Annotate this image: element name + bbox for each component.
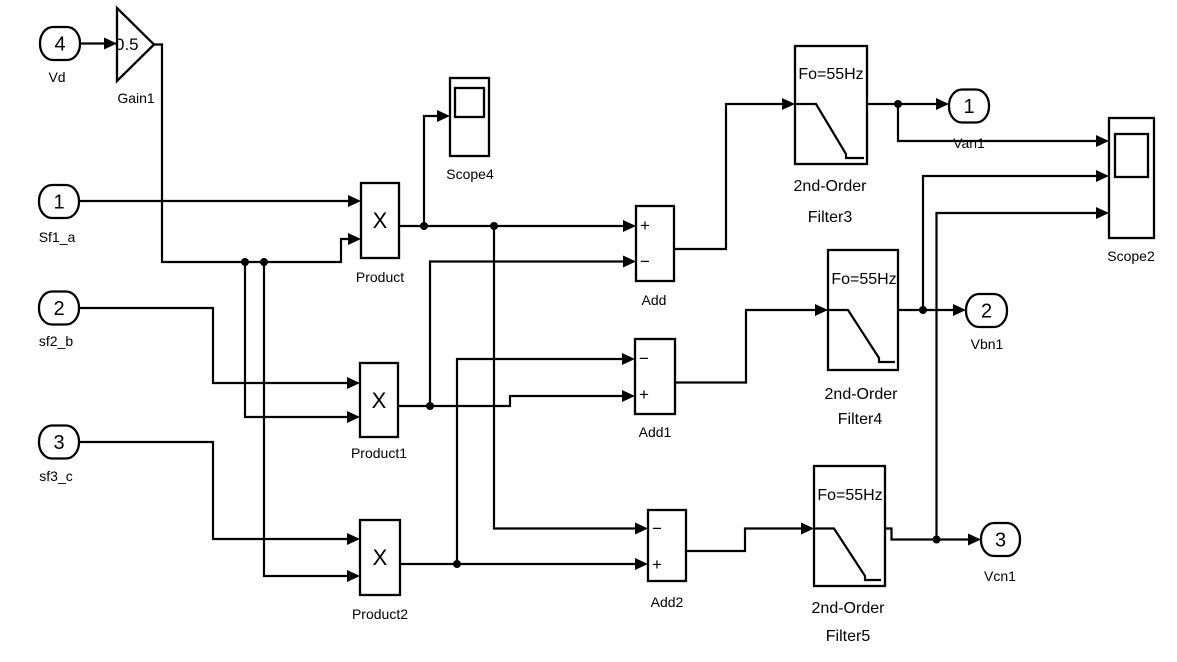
wire port2 to Product1 first input xyxy=(79,308,360,389)
svg-text:sf2_b: sf2_b xyxy=(39,333,73,349)
svg-text:1: 1 xyxy=(963,96,974,118)
junction Product output x=494 xyxy=(490,222,498,230)
svg-text:Add2: Add2 xyxy=(651,594,684,610)
filter block Filter3 xyxy=(795,46,867,164)
junction Filter5 output x=936.5 xyxy=(933,536,941,544)
wire port4 to Gain1 xyxy=(80,38,117,50)
wire Filter3 output to Scope2 input1 xyxy=(898,104,1109,147)
svg-text:1: 1 xyxy=(53,192,64,214)
wire Add output to Filter3 input xyxy=(674,98,795,249)
block Product xyxy=(361,183,399,258)
svg-text:Product: Product xyxy=(356,269,404,285)
wire port3 to Product2 first input xyxy=(79,442,360,545)
svg-text:−: − xyxy=(652,519,662,538)
wire Product1 output up to Add minus input xyxy=(430,256,636,407)
svg-text:3: 3 xyxy=(53,432,64,454)
inport 2 (sf2_b) xyxy=(39,292,79,325)
svg-text:Scope2: Scope2 xyxy=(1107,248,1155,264)
gain Gain1 xyxy=(115,8,154,81)
svg-text:Fo=55Hz: Fo=55Hz xyxy=(798,66,863,83)
wire Product output down to Add2 minus input xyxy=(494,226,648,535)
block Product2 xyxy=(360,520,400,595)
wire Gain1 output to Product second input xyxy=(154,45,361,263)
block Add1 xyxy=(635,339,675,414)
svg-text:X: X xyxy=(373,545,388,570)
svg-text:X: X xyxy=(373,208,388,233)
wire Filter4 output to Scope2 input2 xyxy=(923,170,1109,310)
svg-text:Sf1_a: Sf1_a xyxy=(39,229,76,245)
junction Product1 output x=430 xyxy=(426,402,434,410)
svg-text:3: 3 xyxy=(995,530,1006,552)
svg-text:Filter4: Filter4 xyxy=(838,411,883,428)
svg-text:2: 2 xyxy=(981,301,992,323)
junction Filter4 output x=923 xyxy=(919,306,927,314)
svg-text:−: − xyxy=(639,349,649,368)
svg-text:Vcn1: Vcn1 xyxy=(984,568,1016,584)
svg-text:+: + xyxy=(639,385,649,404)
svg-text:2nd-Order: 2nd-Order xyxy=(794,178,868,195)
scope Scope2 xyxy=(1109,118,1154,238)
svg-text:2nd-Order: 2nd-Order xyxy=(825,386,899,403)
svg-text:Filter3: Filter3 xyxy=(808,209,853,226)
wire gain bus to Product2 second input xyxy=(264,262,360,582)
svg-text:Gain1: Gain1 xyxy=(117,90,155,106)
scope Scope4 xyxy=(450,78,489,156)
svg-text:Vbn1: Vbn1 xyxy=(971,336,1004,352)
wire Product1 output to Add1 plus input xyxy=(398,390,635,406)
svg-text:Filter5: Filter5 xyxy=(826,628,871,645)
junction gain bus x=245 xyxy=(241,258,249,266)
wire gain bus to Product1 second input xyxy=(245,262,360,423)
block Product1 xyxy=(360,363,398,437)
block Add xyxy=(636,206,674,281)
svg-text:2nd-Order: 2nd-Order xyxy=(812,600,886,617)
svg-text:Vd: Vd xyxy=(48,69,65,85)
wire Product output up to Scope4 xyxy=(424,110,450,226)
junction Product output x=424 xyxy=(420,222,428,230)
outport 1 (Van1) xyxy=(949,90,989,123)
outport 3 (Vcn1) xyxy=(981,523,1020,556)
inport 4 (Vd) xyxy=(40,27,80,60)
svg-text:+: + xyxy=(652,555,662,574)
svg-text:sf3_c: sf3_c xyxy=(39,468,72,484)
wire Filter5 output to outport Vcn1 xyxy=(885,529,981,546)
svg-text:2: 2 xyxy=(53,298,64,320)
filter block Filter4 xyxy=(828,250,898,370)
svg-text:X: X xyxy=(372,388,387,413)
block Add2 xyxy=(648,510,686,581)
junction gain bus x=264 xyxy=(260,258,268,266)
junction Product2 output x=457 xyxy=(453,560,461,568)
svg-text:Fo=55Hz: Fo=55Hz xyxy=(817,487,882,504)
svg-text:4: 4 xyxy=(54,34,65,56)
svg-text:Van1: Van1 xyxy=(953,135,985,151)
wire Product output to Add plus input xyxy=(399,220,636,232)
inport 3 (sf3_c) xyxy=(39,426,79,459)
svg-text:−: − xyxy=(640,252,650,271)
svg-text:Add: Add xyxy=(642,292,667,308)
wire Filter5 output to Scope2 input3 xyxy=(937,207,1110,540)
wire port1 to Product first input xyxy=(79,195,361,207)
svg-text:Scope4: Scope4 xyxy=(446,166,494,182)
wire Product2 output to Add2 plus input xyxy=(400,558,648,570)
svg-text:+: + xyxy=(640,216,650,235)
svg-text:Product1: Product1 xyxy=(351,445,407,461)
wire Product2 output up to Add1 minus input xyxy=(457,353,635,564)
filter block Filter5 xyxy=(814,466,885,586)
svg-text:Fo=55Hz: Fo=55Hz xyxy=(831,271,896,288)
junction Filter3 output x=898 xyxy=(894,100,902,108)
wire Filter4 output to outport Vbn1 xyxy=(898,304,966,316)
wire Filter3 output to outport Van1 xyxy=(867,98,949,110)
svg-text:0.5: 0.5 xyxy=(115,35,139,54)
wire Add2 output to Filter5 input xyxy=(686,523,814,552)
outport 2 (Vbn1) xyxy=(966,294,1007,327)
svg-text:Product2: Product2 xyxy=(352,606,408,622)
svg-text:Add1: Add1 xyxy=(639,424,672,440)
inport 1 (Sf1_a) xyxy=(39,185,79,218)
wire Add1 output to Filter4 input xyxy=(675,304,828,383)
